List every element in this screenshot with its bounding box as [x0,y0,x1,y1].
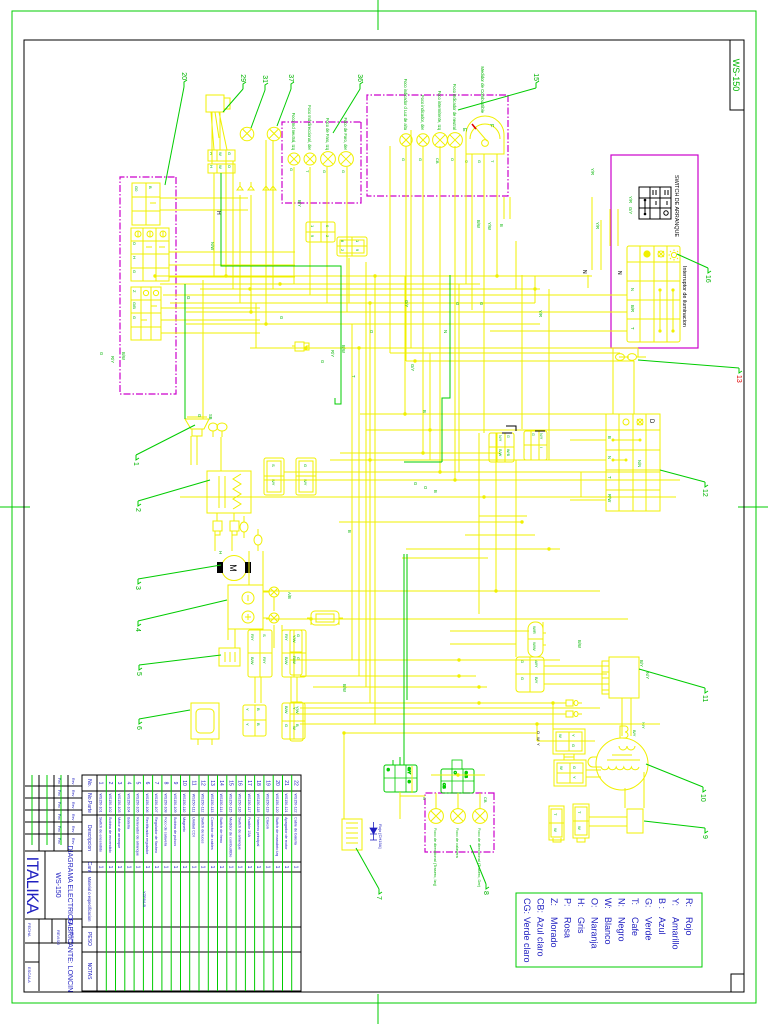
svg-text:1: 1 [132,462,139,466]
svg-text:WS150-116: WS150-116 [238,794,242,813]
svg-text:Rev: Rev [71,826,75,833]
svg-text:Fec: Fec [57,814,61,820]
drawing number box [730,40,744,110]
svg-text:T: T [607,476,612,479]
svg-text:7: 7 [375,896,382,900]
svg-text:1: 1 [107,866,113,869]
ignition switch box 16 [611,155,698,348]
svg-text:S: S [262,634,267,637]
svg-text:19: 19 [265,780,271,786]
svg-text:Z: Z [132,290,137,293]
svg-text:WS150-107: WS150-107 [154,794,158,813]
svg-text:Foco de Faro, Izq: Foco de Faro, Izq [325,118,330,151]
svg-text:Fec: Fec [57,778,61,784]
svg-text:W: W [218,165,223,169]
color legend box [516,893,702,967]
svg-text:R/Y: R/Y [250,634,255,641]
svg-text:1: 1 [246,866,252,869]
relay connector a [248,630,272,677]
svg-text:Rectificador regulador: Rectificador regulador [145,817,149,855]
svg-text:Switch de luces: Switch de luces [201,817,205,843]
svg-text:Bobina de encendido: Bobina de encendido [108,817,112,853]
svg-text:G: G [279,316,284,319]
svg-text:P:: P: [563,898,573,907]
green connector a [384,765,417,792]
svg-text:WS150-112: WS150-112 [201,794,205,813]
svg-text:31: 31 [261,75,268,83]
magneto 10 [586,738,648,790]
svg-text:Y/W: Y/W [487,222,492,230]
svg-text:I: I [539,447,543,448]
svg-text:G: G [418,158,423,161]
svg-text:G: G [531,433,535,436]
corner notch [731,974,744,992]
svg-text:WS150-101: WS150-101 [99,794,103,813]
svg-text:WS150-117: WS150-117 [247,794,251,813]
green wire B [442,275,450,462]
svg-text:G: G [401,158,406,161]
svg-text:W/R: W/R [532,626,537,634]
svg-text:N: N [581,270,587,274]
svg-text:G/Y: G/Y [410,364,415,371]
svg-text:Relevador de arranque: Relevador de arranque [136,817,140,856]
svg-text:No.: No. [86,779,92,787]
svg-text:G: G [571,744,576,747]
svg-text:B: B [148,186,153,189]
svg-text:1: 1 [200,866,206,869]
svg-text:NOTAS: NOTAS [86,963,92,981]
svg-text:7: 7 [153,782,159,785]
svg-text:Rojo: Rojo [684,917,694,936]
svg-text:YZF64-B: YZF64-B [142,891,147,907]
svg-text:G/B: G/B [132,302,137,309]
svg-text:B: B [347,530,352,533]
svg-text:13: 13 [209,780,215,786]
svg-text:B/Y: B/Y [297,200,302,207]
svg-text:1: 1 [310,225,315,228]
svg-text:N: N [630,288,635,291]
svg-text:Rojo [CH15A]: Rojo [CH15A] [378,824,383,848]
svg-text:R/Y: R/Y [284,634,289,641]
svg-text:WS150-104: WS150-104 [126,794,130,813]
svg-text:12: 12 [701,489,708,497]
svg-text:1: 1 [227,866,233,869]
svg-text:H: H [132,256,137,259]
svg-text:Gris: Gris [576,917,586,934]
svg-text:Verde claro: Verde claro [522,917,532,963]
ignition coil 2 [207,471,251,535]
svg-text:Fusible 15A: Fusible 15A [247,817,251,838]
handlebar table c [131,287,161,340]
svg-text:G: G [197,414,202,417]
svg-text:B: B [433,490,438,493]
svg-text:5: 5 [135,672,142,676]
svg-text:2: 2 [134,508,141,512]
title block text [23,778,75,992]
green wire C [393,554,407,765]
centering tick top [738,506,768,508]
svg-text:N/Y: N/Y [539,433,543,440]
svg-text:B/R: B/R [630,305,635,312]
svg-text:O: O [536,731,541,734]
svg-text:Fec: Fec [57,838,61,844]
svg-text:W: W [218,152,223,156]
svg-text:Foco de direccional (Trasero,: Foco de direccional (Trasero, Der) [477,828,482,888]
wire mesh horizontal runs [191,112,644,819]
svg-text:1: 1 [163,866,169,869]
neutral connector b [549,806,564,840]
svg-text:G: G [186,296,191,300]
svg-text:2: 2 [340,249,345,252]
inline fuse a [292,345,309,347]
svg-text:Rev: Rev [71,778,75,785]
wire color tags [99,168,650,692]
svg-text:1: 1 [125,866,131,869]
svg-text:B: B [256,708,261,711]
svg-text:1: 1 [265,866,271,869]
BOM row separators [106,775,291,991]
svg-text:HECHO: HECHO [70,930,75,944]
front turn lamp 37 [267,127,281,141]
centering tick left [377,0,379,30]
svg-text:T: T [305,170,310,173]
CDI oval connector [528,622,543,657]
svg-text:G: G [341,170,346,173]
svg-text:H:: H: [576,898,586,907]
svg-text:CB: CB [442,783,447,789]
svg-text:H: H [209,165,214,168]
svg-text:1: 1 [190,866,196,869]
pilot lamps head cluster [400,133,463,148]
speedo connector a [306,222,335,242]
svg-text:Fec: Fec [57,802,61,808]
green wire D [184,284,186,419]
svg-text:13: 13 [735,375,742,383]
BOM data text [98,780,299,907]
svg-text:Descripcion: Descripcion [86,825,92,851]
svg-text:9: 9 [355,249,360,252]
svg-text:G: G [99,352,104,355]
svg-text:WS150-109: WS150-109 [173,794,177,813]
svg-text:G: G [520,677,525,680]
svg-text:10: 10 [699,794,706,802]
svg-text:G: G [506,435,510,438]
svg-text:G: G [407,780,412,783]
svg-text:G0: G0 [134,186,139,192]
svg-text:Cafe: Cafe [630,917,640,936]
svg-text:W/Y: W/Y [534,660,539,668]
svg-text:G/Y: G/Y [628,207,633,214]
svg-text:Switch de manubrio izq: Switch de manubrio izq [275,817,279,856]
svg-text:1: 1 [181,866,187,869]
color legend text [522,898,694,963]
svg-text:4: 4 [125,782,131,785]
svg-text:1: 1 [153,866,159,869]
rectifier connector a [243,705,266,736]
svg-text:CB:: CB: [536,898,546,913]
svg-text:8: 8 [340,240,345,243]
light dimmer table 12 [606,414,660,511]
item leaders and numbers [132,72,742,900]
svg-text:G: G [572,766,577,769]
magneto connector interlock [564,754,574,760]
black corner mark [506,426,516,431]
BOM table frame [82,775,301,991]
svg-text:G: G [132,270,137,273]
pickup bullets 13 [628,354,637,361]
svg-text:B :: B : [657,898,667,909]
key switch connector b [208,164,235,173]
svg-text:G/Y: G/Y [407,767,412,774]
green wire A [221,173,341,404]
svg-text:Rosa: Rosa [563,917,573,938]
svg-text:G: G [303,464,308,467]
svg-text:Foco Ind direccional, der: Foco Ind direccional, der [307,105,312,150]
magneto pickup coil [620,726,628,738]
svg-text:R/W: R/W [607,494,612,502]
svg-text:Claxon: Claxon [266,817,270,829]
svg-text:1: 1 [292,866,298,869]
coil connector b [296,458,316,495]
svg-text:T: T [577,811,582,814]
svg-text:B/Y: B/Y [632,730,637,737]
svg-text:H: H [218,551,223,554]
magneto connector a [553,729,585,754]
svg-text:18: 18 [255,780,261,786]
svg-text:9: 9 [172,782,178,785]
svg-text:G/Y: G/Y [404,300,409,307]
svg-text:20: 20 [180,72,187,80]
svg-text:Y/R: Y/R [595,222,600,229]
svg-text:B: B [499,224,504,227]
svg-text:Material o especificacion: Material o especificacion [87,877,92,923]
handlebar table b [131,228,169,281]
svg-text:N:: N: [617,898,627,907]
svg-text:G: G [413,482,418,485]
svg-text:Y: Y [571,734,576,737]
horn 1 [185,417,227,437]
svg-text:Y: Y [536,743,541,746]
svg-text:Regulador de flasheo: Regulador de flasheo [154,817,158,853]
green connector b [441,760,474,793]
svg-text:WS150-119: WS150-119 [266,794,270,813]
svg-text:B/W: B/W [476,220,481,228]
svg-text:17: 17 [246,780,252,786]
svg-text:Switch de freno: Switch de freno [219,817,223,843]
svg-text:G: G [322,170,327,173]
svg-text:1: 1 [98,866,104,869]
indicator lamps 36 [288,152,353,167]
coil connector a [264,458,284,495]
svg-text:3: 3 [116,782,122,785]
lamp wire connectors [237,182,276,190]
title block frame [25,775,82,991]
svg-text:Fec: Fec [57,790,61,796]
key switch connector a [208,150,235,161]
svg-text:2: 2 [107,782,113,785]
svg-text:No.Parte: No.Parte [86,793,92,813]
svg-text:B: B [256,723,261,726]
svg-text:WS150-103: WS150-103 [117,794,121,813]
svg-text:36: 36 [356,74,363,82]
svg-text:8: 8 [163,782,169,785]
svg-text:1: 1 [237,866,243,869]
diode symbol blue [370,828,377,834]
svg-text:Switch de arranque: Switch de arranque [238,817,242,850]
svg-text:WS150-121: WS150-121 [284,794,288,813]
handlebar table a [132,183,160,225]
svg-text:H: H [215,211,221,215]
edge connector a [290,702,303,741]
svg-text:CB: CB [435,158,440,164]
svg-text:T: T [351,375,356,378]
svg-text:B: B [607,436,612,439]
harness connector b [524,431,547,460]
speedo connector b [337,237,367,256]
svg-text:Unidad CDI: Unidad CDI [191,817,195,837]
relay connector b [282,630,306,677]
svg-text:Negro: Negro [617,917,627,942]
svg-text:Foco de calavera: Foco de calavera [455,828,460,859]
svg-text:W: W [536,737,541,741]
svg-text:Foco intermitente, Izq: Foco intermitente, Izq [437,91,442,131]
svg-text:B/Y: B/Y [639,660,644,667]
svg-text:Y: Y [292,707,297,710]
svg-text:Rev: Rev [71,814,75,821]
inline fuse c [562,713,582,715]
svg-text:Blanco: Blanco [603,917,613,945]
svg-text:Y/R: Y/R [590,168,595,175]
svg-text:F: F [488,124,494,128]
svg-text:Bateria: Bateria [126,817,130,830]
svg-text:B/W: B/W [341,345,346,353]
svg-text:Z:: Z: [549,898,559,906]
svg-text:Foco indicador, der: Foco indicador, der [420,95,425,130]
svg-text:N/Y: N/Y [641,722,646,729]
svg-text:1: 1 [144,866,150,869]
svg-text:W: W [292,726,297,730]
svg-text:N: N [616,271,622,275]
svg-text:G: G [479,302,484,305]
svg-text:1: 1 [98,782,104,785]
svg-text:CG:: CG: [522,898,532,914]
svg-text:WS-150: WS-150 [54,872,61,897]
svg-text:3: 3 [134,586,141,590]
BOM header text [86,779,92,980]
svg-text:W:: W: [603,898,613,909]
svg-text:Motor de arranque: Motor de arranque [117,817,121,848]
svg-text:B/W: B/W [250,657,255,665]
svg-text:W: W [577,826,582,830]
svg-text:PESO: PESO [86,932,92,946]
magneto connector b [554,760,586,786]
svg-text:WS150-118: WS150-118 [256,794,260,813]
svg-text:Interruptor de iluminacion: Interruptor de iluminacion [681,266,687,327]
svg-text:37: 37 [287,74,294,82]
svg-text:8: 8 [482,891,489,895]
svg-text:Medidor de combustible: Medidor de combustible [228,817,232,857]
svg-text:SB: SB [208,414,213,420]
centering tick right [377,994,379,1024]
svg-text:G: G [477,160,482,163]
svg-text:WS150-120: WS150-120 [275,794,279,813]
svg-text:REVISO: REVISO [56,930,61,945]
svg-text:ITALIKA: ITALIKA [23,857,41,914]
svg-text:1: 1 [116,866,122,869]
svg-text:Y/W: Y/W [292,635,297,643]
svg-text:29: 29 [239,74,246,82]
svg-text:1: 1 [274,866,280,869]
svg-text:Azul claro: Azul claro [536,917,546,957]
neutral switch 9 [627,809,643,833]
svg-text:Azul: Azul [657,917,667,935]
svg-text:G: G [132,316,137,319]
svg-text:N/Y: N/Y [498,435,502,442]
svg-text:Bobina de pulsos: Bobina de pulsos [173,817,177,846]
battery 4 [228,585,279,629]
svg-text:Y/R: Y/R [538,310,543,317]
green wire E [404,461,442,463]
neutral connector a [573,804,589,838]
svg-text:A/B: A/B [287,592,292,599]
svg-text:DIAGRAMA ELECTRICO: DIAGRAMA ELECTRICO [66,846,73,926]
svg-text:G:: G: [644,898,654,908]
svg-text:Y: Y [572,776,577,779]
svg-text:1: 1 [255,866,261,869]
neutral connector interlock [553,838,585,842]
svg-text:Foco de calavera: Foco de calavera [164,817,168,847]
svg-text:10: 10 [181,780,187,786]
svg-text:Y:: Y: [671,898,681,906]
svg-text:1: 1 [135,866,141,869]
svg-text:D: D [648,419,654,424]
svg-text:G: G [422,797,427,800]
svg-text:WS150-105: WS150-105 [136,794,140,813]
centering tick bottom [0,506,30,508]
main fuse holder [311,611,339,625]
inline fuse b [562,702,582,704]
svg-text:16: 16 [237,780,243,786]
svg-text:WS150-111: WS150-111 [191,794,195,812]
svg-text:11: 11 [701,695,708,702]
svg-text:WS150-113: WS150-113 [210,794,214,813]
svg-text:B/W: B/W [342,684,347,692]
svg-text:Foco de direccional (Trasero,: Foco de direccional (Trasero, Izq) [433,828,438,887]
svg-text:N/W: N/W [210,242,215,250]
svg-text:Medidor de Combustible: Medidor de Combustible [480,66,485,113]
svg-text:Rev: Rev [71,790,75,797]
svg-text:Y: Y [245,723,250,726]
svg-text:G: G [320,360,325,363]
svg-text:B/W: B/W [498,449,502,457]
svg-text:WS-150: WS-150 [731,59,741,92]
svg-text:Morado: Morado [549,917,559,948]
svg-text:ESCALA: ESCALA [27,967,32,983]
CDI square connector [516,657,544,692]
svg-text:B: B [422,410,427,413]
svg-text:Harness principal: Harness principal [256,817,260,846]
front turn lamp 31 [240,127,254,141]
svg-text:Y/R: Y/R [628,196,633,203]
svg-text:B/W: B/W [121,352,126,360]
svg-text:WS150-122: WS150-122 [293,794,297,813]
svg-text:B/W: B/W [577,640,582,648]
svg-text:R:: R: [684,898,694,907]
svg-text:Magneto: Magneto [182,817,186,832]
svg-text:G: G [227,152,232,155]
svg-text:N: N [607,456,612,459]
svg-text:B/W: B/W [284,657,289,665]
